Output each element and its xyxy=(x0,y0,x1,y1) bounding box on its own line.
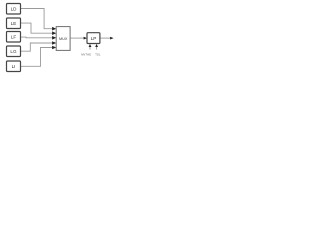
svg-text:TOL: TOL xyxy=(95,52,101,56)
svg-text:LD: LD xyxy=(11,6,18,11)
svg-text:LE: LE xyxy=(11,21,17,26)
svg-text:MUX: MUX xyxy=(59,37,68,41)
svg-text:LG: LG xyxy=(10,49,17,54)
svg-text:LI: LI xyxy=(12,64,16,69)
svg-text:LP: LP xyxy=(91,36,97,41)
svg-text:LF: LF xyxy=(11,34,17,39)
svg-text:MVTHE: MVTHE xyxy=(81,52,91,56)
